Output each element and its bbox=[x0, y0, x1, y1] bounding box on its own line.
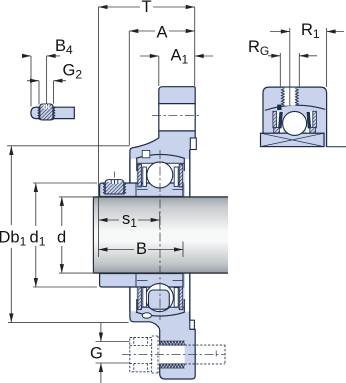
svg-text:T: T bbox=[142, 0, 152, 16]
svg-text:A1: A1 bbox=[171, 47, 189, 67]
svg-text:d: d bbox=[57, 229, 66, 247]
svg-text:G2: G2 bbox=[63, 62, 83, 82]
svg-text:RG: RG bbox=[248, 38, 269, 58]
svg-text:G: G bbox=[90, 345, 103, 363]
svg-text:B4: B4 bbox=[55, 37, 73, 57]
svg-text:d1: d1 bbox=[30, 229, 46, 249]
svg-text:R1: R1 bbox=[301, 21, 320, 41]
svg-text:B: B bbox=[136, 240, 147, 258]
svg-text:Db1: Db1 bbox=[0, 229, 27, 249]
svg-text:A: A bbox=[157, 24, 168, 42]
